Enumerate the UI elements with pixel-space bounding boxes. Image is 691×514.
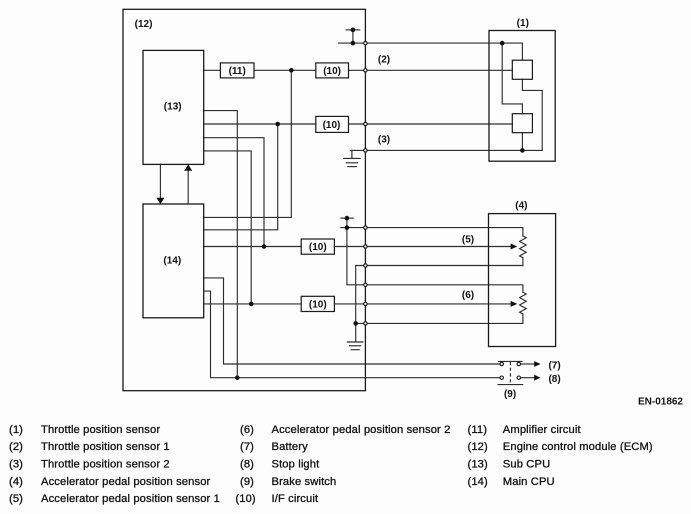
svg-text:(12): (12)	[468, 441, 489, 453]
svg-text:Accelerator pedal position sen: Accelerator pedal position sensor 2	[272, 424, 451, 436]
svg-text:(1): (1)	[9, 424, 23, 436]
svg-text:(7): (7)	[548, 360, 560, 371]
svg-text:Amplifier circuit: Amplifier circuit	[503, 424, 582, 436]
svg-text:Engine control module (ECM): Engine control module (ECM)	[503, 441, 653, 453]
svg-text:(14): (14)	[468, 476, 489, 488]
svg-text:(10): (10)	[323, 120, 341, 131]
svg-text:(5): (5)	[9, 493, 23, 505]
svg-text:(10): (10)	[323, 66, 341, 77]
svg-text:(10): (10)	[309, 242, 327, 253]
svg-text:(8): (8)	[548, 374, 560, 385]
svg-text:(6): (6)	[240, 424, 254, 436]
svg-text:(2): (2)	[378, 54, 390, 65]
svg-text:Throttle position sensor 1: Throttle position sensor 1	[41, 441, 170, 453]
svg-text:(14): (14)	[163, 255, 181, 266]
svg-text:(4): (4)	[515, 200, 527, 211]
svg-text:Accelerator pedal position sen: Accelerator pedal position sensor	[41, 476, 211, 488]
svg-text:(6): (6)	[462, 290, 474, 301]
svg-text:(3): (3)	[378, 134, 390, 145]
svg-text:(5): (5)	[462, 235, 474, 246]
svg-text:Stop light: Stop light	[272, 459, 321, 471]
svg-text:(10): (10)	[309, 299, 327, 310]
svg-text:(12): (12)	[135, 19, 153, 30]
svg-text:(11): (11)	[229, 66, 246, 77]
svg-text:Sub CPU: Sub CPU	[503, 459, 550, 471]
svg-text:Throttle position sensor 2: Throttle position sensor 2	[41, 459, 170, 471]
svg-text:Throttle position sensor: Throttle position sensor	[41, 424, 160, 436]
svg-text:Battery: Battery	[272, 441, 309, 453]
svg-text:(9): (9)	[504, 389, 516, 400]
svg-text:(13): (13)	[164, 102, 182, 113]
svg-text:Brake switch: Brake switch	[272, 476, 337, 488]
svg-text:(8): (8)	[240, 459, 254, 471]
svg-text:(7): (7)	[240, 441, 254, 453]
svg-text:(9): (9)	[240, 476, 254, 488]
svg-text:Main CPU: Main CPU	[503, 476, 555, 488]
svg-text:Accelerator pedal position sen: Accelerator pedal position sensor 1	[41, 493, 220, 505]
svg-text:EN-01862: EN-01862	[638, 397, 683, 408]
svg-text:I/F circuit: I/F circuit	[272, 493, 319, 505]
svg-text:(4): (4)	[9, 476, 23, 488]
svg-text:(3): (3)	[9, 459, 23, 471]
svg-text:(11): (11)	[468, 424, 488, 436]
svg-text:(2): (2)	[9, 441, 23, 453]
svg-text:(13): (13)	[468, 459, 489, 471]
svg-text:(1): (1)	[517, 18, 529, 29]
svg-text:(10): (10)	[235, 493, 256, 505]
